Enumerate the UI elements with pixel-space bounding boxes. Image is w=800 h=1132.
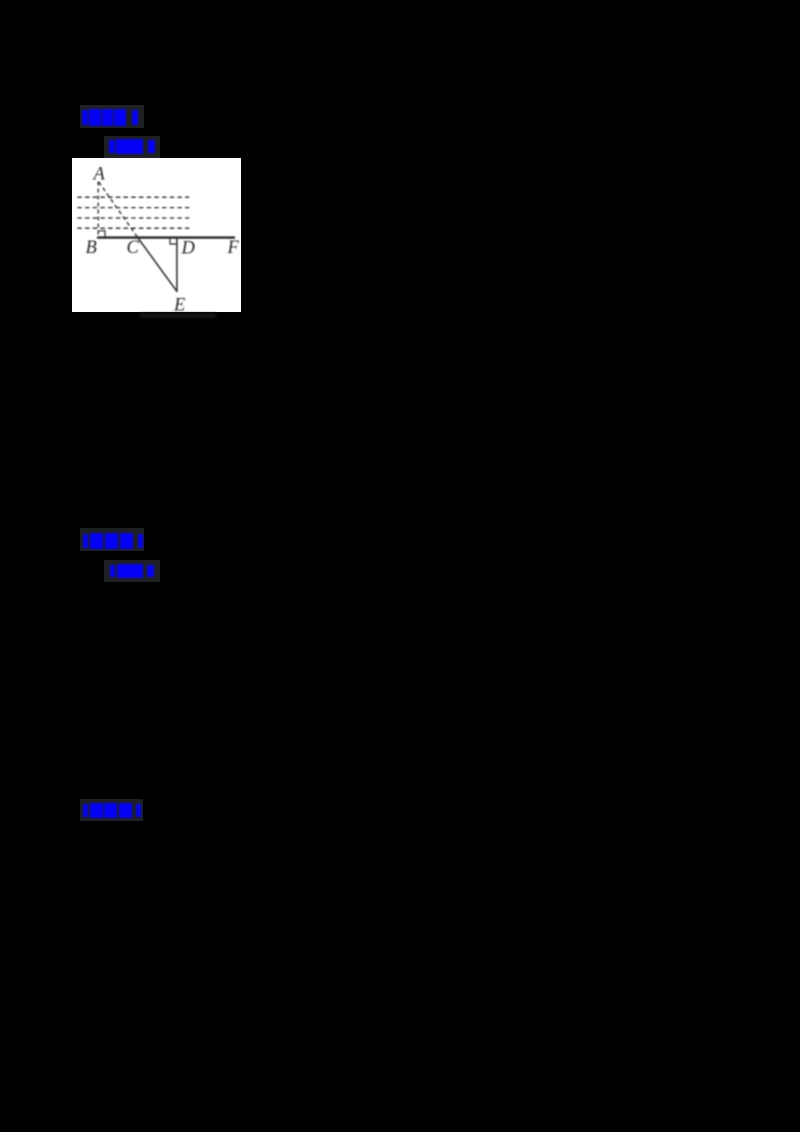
- svg-text:E: E: [173, 296, 185, 313]
- svg-text:F: F: [227, 238, 240, 258]
- svg-text:C: C: [127, 238, 140, 258]
- svg-text:A: A: [92, 165, 106, 185]
- svg-text:B: B: [86, 238, 97, 258]
- svg-text:D: D: [181, 239, 196, 259]
